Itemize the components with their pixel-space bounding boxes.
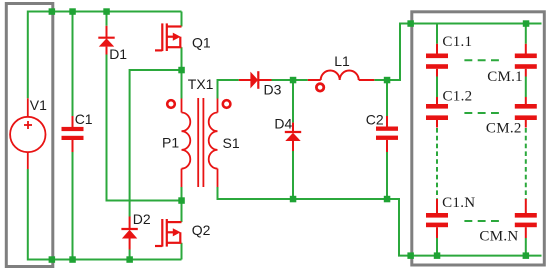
capacitor C1.2 — [426, 97, 448, 128]
junction: D1 cathode on rail — [103, 8, 110, 15]
junction: C1 bottom on rail — [69, 256, 76, 263]
junction: V1 box port on top rail — [49, 8, 56, 15]
wire: P1 bottom lead — [181, 187, 183, 201]
wire: D4 cathode drop — [292, 80, 294, 123]
wire: S1 top to D3 — [218, 80, 239, 99]
wire: C2 node up into stack box top rail — [387, 24, 412, 81]
right battery stack box — [412, 12, 545, 265]
wire: C1.1 top lead green — [436, 24, 438, 44]
capacitor C1.1 — [426, 44, 448, 77]
wire: D1 anode down and across to P1 bottom — [107, 55, 182, 201]
svg-text:C2: C2 — [366, 111, 384, 127]
wire: S1 bottom return rail — [218, 187, 412, 256]
capacitor C2 — [376, 116, 398, 152]
svg-text:C1: C1 — [75, 111, 93, 127]
junction: D3 cathode / D4 node — [290, 77, 297, 84]
wire: D2 anode to bottom rail — [129, 250, 131, 260]
inductor L1 — [308, 71, 375, 81]
voltage source V1 — [10, 98, 45, 169]
junction: D2 anode on bottom rail — [126, 256, 132, 263]
wire: junction to Q2 drain — [181, 201, 183, 223]
junction: C2 bottom on secondary return — [384, 196, 391, 203]
MOSFET Q2 — [155, 219, 182, 247]
wire: CM.1 top lead green — [525, 24, 527, 44]
svg-text:D3: D3 — [264, 81, 282, 97]
core — [197, 98, 199, 187]
wire: node to L1 — [293, 79, 308, 81]
diode D4 — [285, 123, 301, 151]
wire: dashed link CM.2 to CM.N — [525, 128, 527, 200]
svg-text:P1: P1 — [162, 134, 179, 150]
svg-text:D1: D1 — [109, 46, 127, 62]
svg-text:L1: L1 — [334, 53, 350, 69]
diode D2 — [121, 217, 137, 250]
junction: stack box bottom-left port — [407, 252, 414, 259]
svg-text:C1.2: C1.2 — [443, 88, 473, 104]
dashed ellipsis row 2 — [464, 112, 500, 114]
L1 polarity dot — [316, 84, 323, 91]
junction: stack box top-left port — [407, 20, 414, 27]
capacitor CM.1 — [515, 44, 537, 77]
wire: D3 cathode to node — [272, 79, 294, 81]
S1 polarity dot — [223, 100, 231, 108]
svg-text:TX1: TX1 — [188, 76, 214, 92]
P1 polarity dot — [167, 100, 175, 108]
junction: CM.1 top on stack rail — [523, 20, 530, 27]
left source box — [6, 4, 53, 267]
MOSFET Q1 — [155, 23, 182, 51]
wire: C1 bottom lead — [72, 152, 74, 260]
junction: C1 top on rail — [69, 8, 76, 15]
primary winding P1 — [181, 99, 183, 113]
wire: stack bottom rail — [411, 255, 542, 257]
wire: L1 to C2 node — [374, 79, 387, 81]
svg-text:CM.1: CM.1 — [487, 69, 523, 85]
junction: Q1 source / P1 top / clamp node — [178, 67, 185, 74]
svg-text:CM.N: CM.N — [479, 229, 518, 245]
wire: C1.1 to C1.2 link — [436, 77, 438, 98]
diode D1 — [98, 26, 114, 55]
svg-text:CM.2: CM.2 — [486, 120, 522, 136]
junction: CM.N bottom on stack rail — [523, 252, 530, 259]
wire: D4 anode to secondary return — [292, 151, 294, 199]
wire: CM.1 to CM.2 link — [525, 77, 527, 98]
wire: C2 bottom lead — [386, 152, 388, 199]
wire: clamp branch to D2 — [130, 70, 182, 217]
dashed ellipsis row 3 — [464, 220, 500, 222]
wire: stack top rail — [411, 23, 542, 25]
wire: bottom rail primary — [28, 169, 182, 260]
capacitor CM.2 — [515, 97, 537, 128]
svg-text:C1.1: C1.1 — [442, 34, 472, 50]
wire: top rail primary — [28, 12, 182, 99]
capacitor C1 — [62, 116, 84, 152]
junction: D4 anode on secondary return — [290, 196, 297, 203]
capacitor C1.N — [426, 199, 448, 238]
wire: C1.N bottom lead green — [436, 238, 438, 256]
svg-text:S1: S1 — [223, 135, 240, 151]
svg-text:V1: V1 — [30, 97, 47, 113]
wire: C2 top lead — [386, 80, 388, 116]
wire: Q1 drain drop — [181, 12, 183, 27]
secondary winding S1 — [217, 99, 219, 113]
capacitor CM.N — [515, 199, 537, 238]
wire: CM.N bottom lead green — [525, 238, 527, 256]
junction: L1 / C2 output node — [384, 77, 391, 84]
wire: Q2 source to bottom rail — [181, 243, 183, 260]
diode D3 — [239, 71, 272, 89]
transformer TX1 — [182, 98, 218, 187]
wire: Q1 source to junction and P1 top — [181, 47, 183, 98]
svg-text:D4: D4 — [274, 116, 292, 132]
svg-text:Q2: Q2 — [192, 222, 211, 238]
junction: V1 box port on bottom rail — [49, 256, 56, 263]
wire: dashed link C1.2 to C1.N — [436, 128, 438, 200]
junction: P1 bottom / D1 anode / Q2 drain — [178, 197, 185, 204]
junction: C1.N bottom on stack rail — [434, 252, 441, 259]
svg-text:Q1: Q1 — [192, 34, 211, 50]
wire: D1 cathode from top rail — [106, 12, 108, 26]
svg-text:D2: D2 — [133, 211, 151, 227]
svg-text:C1.N: C1.N — [442, 195, 475, 211]
dashed ellipsis row 1 — [464, 59, 500, 61]
wire: C1 top lead — [72, 12, 74, 117]
